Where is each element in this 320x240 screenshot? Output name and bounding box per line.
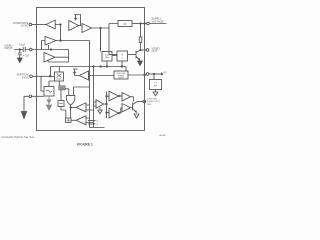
ground Q2 emitter xyxy=(134,114,139,118)
node T6 video output terminal xyxy=(146,49,149,52)
resistor R1 xyxy=(140,24,142,38)
wire U4 input xyxy=(42,41,46,50)
wire U9 input xyxy=(94,102,97,106)
wire into G1 inputs xyxy=(65,87,90,96)
wire U10 to U12a xyxy=(120,95,122,97)
svg-text:8V: 8V xyxy=(124,23,127,26)
op-amp U4 video amp xyxy=(45,37,56,46)
wire U8 inputs xyxy=(86,118,94,123)
IC outline box xyxy=(37,8,145,131)
wire X1 top to bus xyxy=(58,67,60,73)
op-amp U7 (points left) xyxy=(76,103,86,112)
op-amp U8 (points left) xyxy=(76,116,86,125)
junction dot E xyxy=(144,23,145,24)
ground U9 xyxy=(98,107,102,114)
junction dot O1 xyxy=(106,96,107,97)
junction dot F xyxy=(140,49,141,50)
amplifier block A1 xyxy=(117,51,128,61)
wire T4 into box xyxy=(32,95,44,97)
op-amp U9 small xyxy=(96,100,104,109)
wire into A1 xyxy=(109,54,117,56)
block S1 subcarrier control xyxy=(114,71,128,79)
wire osc loop xyxy=(41,76,55,91)
wire G1 output xyxy=(71,105,76,119)
node T5 supply voltage terminal xyxy=(147,22,150,25)
svg-text:RF: RF xyxy=(164,72,168,74)
wire stubs into U10 U11 xyxy=(107,96,110,112)
wire U7 inputs xyxy=(86,105,94,110)
junction dot I xyxy=(93,66,94,67)
wire B1 xyxy=(58,81,60,86)
wire stub out2 xyxy=(88,123,96,125)
svg-text:VOLTAGE: VOLTAGE xyxy=(152,19,164,23)
wire U3 output to node xyxy=(92,24,119,55)
junction dot L xyxy=(121,66,122,67)
node T3 vertical sync terminal xyxy=(30,75,33,78)
op-amp U3 xyxy=(82,24,92,33)
wire T1 to U1 xyxy=(32,24,46,26)
wire B2 to P1 xyxy=(61,90,66,119)
svg-text:t1: t1 xyxy=(96,120,99,123)
wire U5 feedback loop xyxy=(48,50,69,63)
node T1 composite sync terminal xyxy=(29,23,32,26)
svg-text:RF: RF xyxy=(154,86,158,88)
wire S1 to T7 xyxy=(128,74,146,76)
op-amp U10 xyxy=(109,91,119,101)
block Z1 external network xyxy=(150,80,162,90)
svg-text:1: 1 xyxy=(122,58,124,60)
wire U1 input node xyxy=(55,25,60,41)
svg-text:t2: t2 xyxy=(96,123,99,126)
wire M1 top feed xyxy=(100,28,102,52)
junction dot H xyxy=(49,76,50,77)
svg-text:A: A xyxy=(121,53,123,57)
svg-text:CONT: CONT xyxy=(118,78,124,80)
svg-text:OUT: OUT xyxy=(152,49,158,53)
op-amp U12a xyxy=(122,93,131,102)
wire T4 to ground xyxy=(24,96,29,111)
svg-text:MHz: MHz xyxy=(105,57,110,59)
regulator block REG xyxy=(118,21,132,27)
wire U9 out xyxy=(104,103,107,105)
wire M2 to bus xyxy=(121,61,123,67)
junction dot N xyxy=(70,107,71,108)
wire collector node to T6 xyxy=(141,49,147,51)
junction dot O2 xyxy=(106,103,107,104)
node T4 ground pin terminal xyxy=(29,95,32,98)
node T2 video input terminal xyxy=(30,48,33,51)
ground arrow T4 xyxy=(21,112,26,119)
svg-text:FIGURE 1: FIGURE 1 xyxy=(77,142,93,146)
block M1 4.43MHz xyxy=(102,52,112,62)
wire mid vertical node xyxy=(106,92,108,119)
bus wire xyxy=(51,67,127,77)
op-amp U2 clamp amp top xyxy=(69,21,79,31)
svg-text:75Ω: 75Ω xyxy=(147,104,151,106)
ground arrow osc xyxy=(46,96,51,110)
capacitor C2 4.7uF xyxy=(18,50,22,59)
summing block P1 xyxy=(66,118,72,123)
wire T7 out xyxy=(149,73,163,75)
wire A1 to Q1 base xyxy=(128,54,137,56)
wire branch to Z1 xyxy=(153,74,155,80)
node T8 video out terminal xyxy=(143,100,146,103)
junction dot A xyxy=(60,24,61,25)
svg-text:0.1µF: 0.1µF xyxy=(19,44,26,47)
junction dot M xyxy=(144,74,145,75)
ground Z1 xyxy=(153,90,158,96)
block B2 xyxy=(58,101,64,107)
bubble U11 xyxy=(119,112,121,114)
junction dot B xyxy=(60,40,61,41)
svg-text:4.7µF: 4.7µF xyxy=(23,54,30,57)
clamp amp U6 (points left) xyxy=(80,71,89,80)
wire T3 to X1 xyxy=(32,75,54,77)
svg-text:SYNC: SYNC xyxy=(21,24,28,28)
wire U2 to U3 xyxy=(79,25,83,27)
op-amp U5 feedback amp xyxy=(44,53,55,63)
svg-text:Composite Options: See Text: Composite Options: See Text xyxy=(2,136,35,139)
oscillator block OSC xyxy=(44,87,54,97)
junction dot K xyxy=(106,66,107,67)
junction dot J xyxy=(100,66,101,67)
wire REG to supply pin xyxy=(132,23,147,25)
node T7 rf terminal xyxy=(146,73,149,76)
svg-text:INPUT: INPUT xyxy=(5,46,13,50)
ground C2 xyxy=(17,58,22,63)
svg-text:TO: TO xyxy=(154,83,157,85)
wire stub out1 xyxy=(88,120,96,122)
clamp symbol U6 xyxy=(73,69,80,76)
svg-text:AI5066: AI5066 xyxy=(160,134,166,137)
op-amp U12b xyxy=(122,104,131,113)
wire supply out xyxy=(149,23,166,25)
wire Q2 collector to T8 xyxy=(138,101,144,103)
wire M1 to bus xyxy=(106,61,108,67)
junction dot D xyxy=(140,23,141,24)
junction dot G xyxy=(50,49,51,50)
clamp symbol U2 xyxy=(74,15,81,26)
junction dot C xyxy=(100,27,101,28)
svg-text:SYNC: SYNC xyxy=(22,75,29,79)
crystal X1 block xyxy=(55,72,64,81)
wire vertical mid xyxy=(90,67,105,128)
transistor Q1 xyxy=(136,50,141,60)
block B1 oo xyxy=(59,86,65,90)
ground Q1 emitter xyxy=(138,61,143,66)
op-amp U11 xyxy=(109,108,119,118)
capacitor C1 0.1uF xyxy=(14,47,30,52)
summing gate G1 xyxy=(66,96,74,105)
junction dot O3 xyxy=(106,112,107,113)
wire U6 to S1 xyxy=(89,75,115,77)
wire P1 to U8 xyxy=(71,119,76,121)
wire U12b to Q2 xyxy=(131,97,134,108)
wire U4 output row xyxy=(56,41,90,128)
transistor Q2 xyxy=(133,102,138,113)
wire M1 M2 link xyxy=(112,55,117,57)
wire T2 into box xyxy=(32,45,56,50)
wire U11 to U12b xyxy=(120,108,122,113)
op-amp U1 sync buffer (points left) xyxy=(46,20,55,29)
bubble U10 xyxy=(119,95,121,97)
